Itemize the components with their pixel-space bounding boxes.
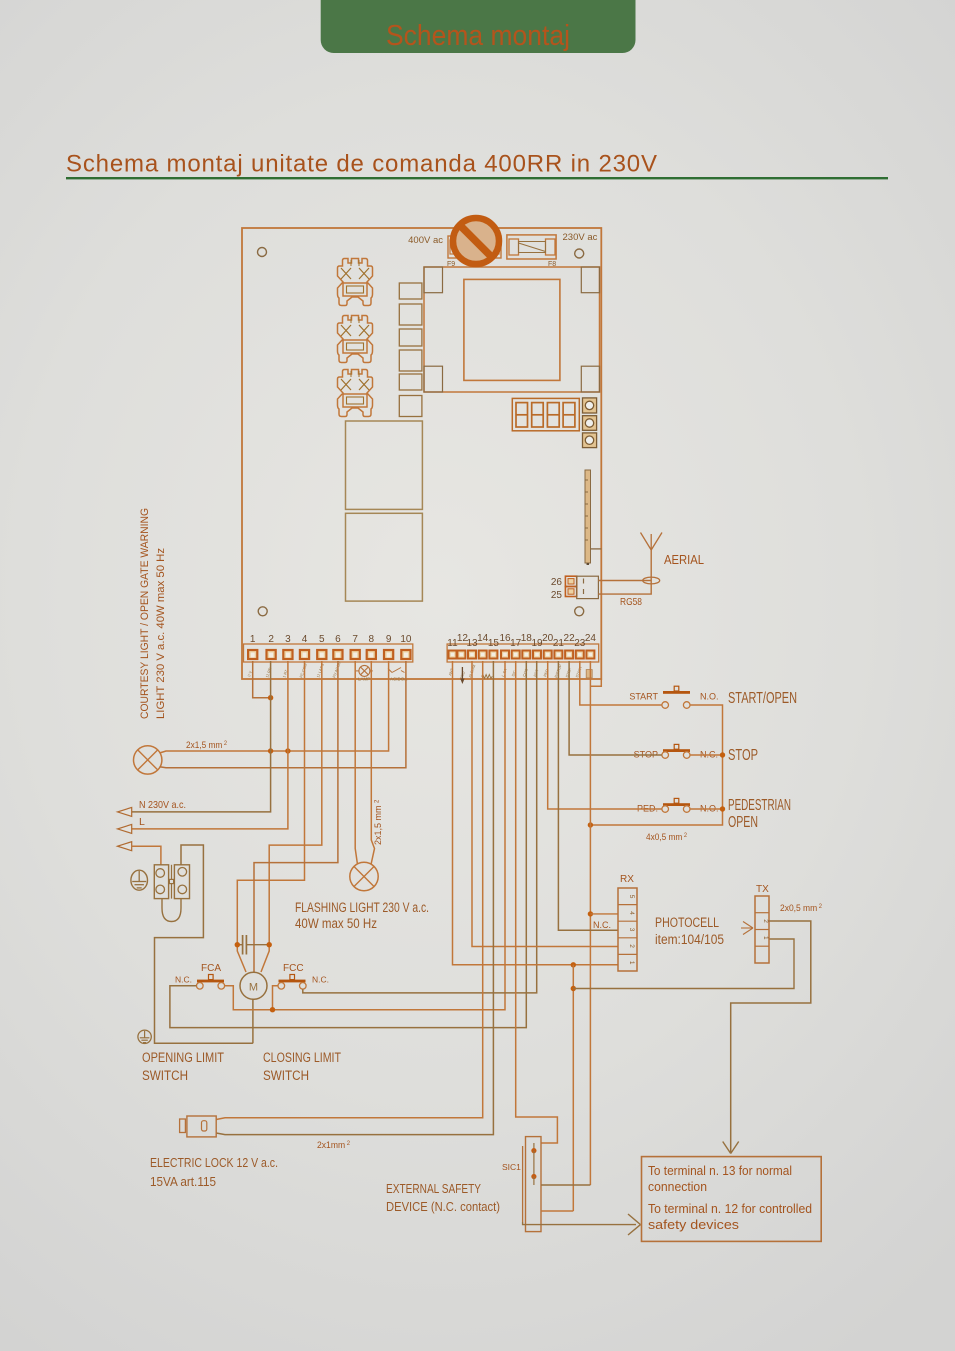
terminal strip X1 terminals 1-10 — [248, 650, 410, 659]
arrow L — [118, 824, 132, 833]
label N.C. FCC — [312, 975, 329, 985]
wire terminal 26 to coax — [598, 580, 651, 582]
svg-text:START: START — [629, 692, 658, 702]
junction dot lamp-N — [268, 748, 273, 753]
svg-text:F9: F9 — [447, 261, 455, 268]
label N.O. START — [700, 692, 719, 702]
svg-text:SIC1: SIC1 — [502, 1162, 521, 1172]
svg-text:25: 25 — [551, 590, 563, 601]
label N.C. RX — [593, 920, 611, 930]
heatsink HS1 — [338, 259, 373, 306]
safety switch SIC1 — [523, 1137, 541, 1232]
svg-text:RX: RX — [620, 874, 634, 885]
arrow into note box left — [628, 1214, 641, 1235]
button SW1 — [583, 398, 597, 413]
page heading — [66, 151, 657, 178]
svg-text:DEVICE (N.C. contact): DEVICE (N.C. contact) — [386, 1199, 500, 1214]
display DS1 — [512, 398, 579, 430]
svg-text:PED: PED — [543, 668, 550, 677]
label START/OPEN — [728, 690, 797, 707]
wire terminal 14 to electric lock — [216, 661, 483, 1120]
heading underline — [66, 177, 888, 179]
junction dot C1 left — [235, 942, 240, 947]
U loop under mains block — [162, 899, 181, 922]
svg-text:4: 4 — [628, 911, 635, 915]
wire STOP left to terminal 22 — [569, 661, 662, 755]
svg-text:LIGHT 230 V a.c. 40W max 50 H: LIGHT 230 V a.c. 40W max 50 Hz — [155, 548, 167, 719]
svg-text:400V ac: 400V ac — [408, 235, 443, 246]
junction dot chain PED — [720, 806, 725, 811]
svg-text:item:104/105: item:104/105 — [655, 932, 724, 947]
svg-text:CLOSING LIMIT: CLOSING LIMIT — [263, 1050, 341, 1065]
wire terminal 13 to RX cell 2 — [472, 661, 618, 947]
svg-text:10: 10 — [400, 634, 412, 645]
heatsink HS2 — [338, 316, 373, 363]
push button PED — [662, 798, 690, 812]
terminal strip X2 terminals 11-24 — [449, 651, 595, 659]
junction dot TX1 tap — [571, 986, 576, 991]
X1 label strip small markings — [247, 661, 342, 679]
coax connector symbol — [643, 577, 660, 584]
safety chain vertical — [572, 965, 574, 1211]
wire courtesy lamp bottom to terminal 10 — [160, 661, 406, 768]
limit switch FCA — [197, 975, 225, 990]
label 230V ac — [563, 232, 598, 243]
label N.O. PED — [700, 804, 719, 814]
svg-text:2x1mm 2: 2x1mm 2 — [317, 1140, 350, 1151]
label SIC1 — [502, 1162, 521, 1172]
junction dot chain t24 column — [588, 822, 593, 827]
svg-text:L: L — [139, 816, 145, 828]
svg-text:N 230V a.c.: N 230V a.c. — [139, 799, 186, 811]
arrow into note box top — [723, 1142, 739, 1154]
label STOP big — [728, 747, 758, 764]
svg-text:PHOTOCELL: PHOTOCELL — [655, 915, 719, 930]
wire FCC right to terminal 19 — [303, 661, 537, 993]
electric lock — [180, 1116, 217, 1137]
svg-text:FCA: FCA — [201, 963, 221, 974]
wire to RX cell 4 — [590, 913, 618, 915]
svg-text:2x1,5 mm 2: 2x1,5 mm 2 — [186, 740, 227, 751]
svg-text:FCC: FCC — [283, 963, 304, 974]
svg-text:SWITCH: SWITCH — [142, 1068, 188, 1083]
wire SIC1 to safety chain — [541, 1210, 573, 1212]
svg-text:26: 26 — [551, 577, 563, 588]
wire connector to board edge — [591, 548, 602, 550]
junction dot FCC chain — [270, 1007, 275, 1012]
wire N column terminal 2 — [132, 661, 271, 812]
label OPENING LIMIT SWITCH — [142, 1050, 224, 1083]
label 2x0,5 mm2 — [780, 903, 822, 914]
wire SIC1 to note box — [523, 1222, 636, 1225]
mounting hole bottom-left — [258, 607, 267, 616]
junction dot RX4 — [588, 911, 593, 916]
push button STOP — [662, 744, 690, 758]
label AERIAL — [664, 553, 704, 567]
wire terminal 1 jog — [253, 661, 271, 698]
label N 230V a.c. — [139, 799, 186, 811]
svg-text:ANT: ANT — [448, 667, 455, 676]
fuse F8 — [507, 235, 556, 268]
relay K2 — [346, 513, 423, 601]
arrow N — [118, 807, 132, 816]
limit switch FCC — [278, 975, 306, 990]
wire L column terminal 3 — [132, 661, 288, 829]
svg-text:4x0,5 mm 2: 4x0,5 mm 2 — [646, 832, 687, 843]
svg-text:ELECTRIC LOCK 12 V a.c.: ELECTRIC LOCK 12 V a.c. — [150, 1155, 278, 1170]
svg-text:5: 5 — [628, 895, 635, 899]
wire FCA right chain to terminal 16 — [225, 661, 505, 1010]
terminal strip X2 box — [447, 644, 599, 662]
wire terminal 4 to motor left — [237, 661, 304, 972]
X2 terminal 12 arrow — [460, 667, 464, 684]
svg-text:PEDESTRIAN: PEDESTRIAN — [728, 797, 791, 814]
svg-text:11 LAPS: 11 LAPS — [316, 663, 325, 679]
prohibition sign — [453, 218, 499, 264]
relay K1 — [346, 421, 423, 509]
wire courtesy lamp top to terminal 9 — [160, 661, 389, 753]
wire terminal 8 to flashing light — [371, 661, 375, 865]
terminal strip X1 box — [244, 644, 413, 662]
X1 switch pictogram — [388, 668, 407, 682]
junction dot safety chain top — [571, 962, 576, 967]
mains terminal block — [154, 865, 189, 899]
label FLASHING LIGHT — [295, 900, 429, 931]
svg-text:15VA art.115: 15VA art.115 — [150, 1174, 216, 1189]
mounting hole bottom-right — [575, 607, 584, 616]
wire SIC1 to aerial column — [541, 1184, 590, 1186]
capacitor C1 — [237, 935, 269, 955]
photocell TX block — [755, 896, 769, 963]
label PEDESTRIAN OPEN — [728, 797, 791, 831]
svg-text:11 RR: 11 RR — [265, 667, 272, 678]
svg-text:230V ac: 230V ac — [563, 232, 598, 243]
wire FCC left to chain — [273, 986, 278, 1010]
svg-text:COS: COS — [522, 668, 529, 678]
label 2x1,5 mm2 courtesy — [186, 740, 227, 751]
svg-text:STOP: STOP — [728, 747, 758, 764]
svg-text:FU ACOM: FU ACOM — [332, 661, 342, 679]
svg-text:2: 2 — [762, 919, 769, 923]
vertical label courtesy light line2 — [155, 548, 167, 719]
svg-text:F8: F8 — [548, 261, 556, 268]
svg-text:24: 24 — [585, 633, 597, 644]
svg-text:START/OPEN: START/OPEN — [728, 690, 797, 707]
arrow PE — [118, 842, 132, 851]
wire terminal 25 to aerial — [598, 550, 651, 594]
ground symbol bottom-left — [138, 1030, 151, 1043]
svg-text:9: 9 — [386, 634, 392, 645]
label STOP small — [634, 750, 658, 760]
board right edge extension wire — [590, 679, 601, 686]
label FCC — [283, 963, 304, 974]
earth symbol at mains block — [131, 870, 148, 890]
svg-text:N.C.: N.C. — [175, 975, 192, 985]
X2 tab under 24 — [586, 670, 592, 678]
svg-text:RG58: RG58 — [620, 596, 642, 608]
svg-text:7: 7 — [352, 634, 358, 645]
wire button chain right side — [590, 705, 722, 825]
svg-text:COURTESY LIGHT / OPEN GATE WAR: COURTESY LIGHT / OPEN GATE WARNING — [139, 508, 151, 719]
svg-text:Schema montaj unitate de coman: Schema montaj unitate de comanda 400RR i… — [66, 151, 657, 178]
label PHOTOCELL item — [655, 915, 724, 947]
control board outline — [242, 228, 601, 679]
mounting hole top-left — [258, 248, 267, 257]
svg-text:40W max 50 Hz: 40W max 50 Hz — [295, 916, 377, 931]
svg-text:FC.COM: FC.COM — [299, 663, 308, 678]
svg-text:AERIAL: AERIAL — [664, 553, 704, 567]
svg-text:15: 15 — [488, 638, 500, 649]
photocell RX block — [618, 888, 637, 971]
svg-text:4: 4 — [302, 634, 308, 645]
junction dot terminal1-2 — [268, 695, 273, 700]
wire terminal 15 to electric lock — [216, 661, 493, 1135]
mounting hole top-right — [575, 249, 584, 258]
beam arrows TX — [741, 922, 753, 935]
wire STOP right to chain — [690, 754, 723, 756]
motor M — [240, 972, 267, 999]
svg-text:N.C.: N.C. — [312, 975, 329, 985]
component squares column — [399, 283, 422, 417]
label TX — [756, 884, 769, 895]
svg-text:To terminal n. 12 for control: To terminal n. 12 for controlled — [648, 1202, 812, 1216]
label RX — [620, 874, 634, 885]
wire PED left to terminal 20 — [548, 661, 662, 809]
earth wire to motor — [155, 845, 253, 1043]
wire TX cell 2 to note box — [731, 921, 811, 1152]
svg-text:connection: connection — [648, 1180, 707, 1194]
label 400V ac — [408, 235, 443, 246]
label RG58 — [620, 596, 642, 608]
fuse F9 — [447, 236, 501, 268]
svg-text:2x1,5 mm 2: 2x1,5 mm 2 — [373, 799, 383, 845]
wire aerial column terminal 24 — [589, 661, 591, 1185]
label N.C. STOP — [700, 750, 718, 760]
button SW3 — [583, 433, 597, 448]
note box — [642, 1157, 822, 1242]
svg-text:6: 6 — [335, 634, 341, 645]
wire PED right to chain — [690, 808, 723, 810]
svg-text:N.O.: N.O. — [700, 692, 719, 702]
svg-text:N.C.: N.C. — [593, 920, 611, 930]
wire PE arrow to mains block — [132, 846, 161, 865]
junction dot chain STOP — [720, 752, 725, 757]
aerial symbol — [641, 533, 663, 551]
wire terminal 7 to flashing light — [355, 661, 357, 865]
svg-text:1: 1 — [762, 936, 769, 940]
svg-text:OPENING LIMIT: OPENING LIMIT — [142, 1050, 224, 1065]
wire START left to terminal 23 — [580, 661, 662, 705]
svg-text:safety devices: safety devices — [648, 1218, 739, 1232]
label CLOSING LIMIT SWITCH — [263, 1050, 341, 1083]
X2 resistor pictogram — [482, 675, 493, 679]
courtesy lamp — [134, 746, 162, 774]
terminal numbers 1-10 — [250, 634, 412, 645]
wire motor bottom to earth — [252, 999, 254, 1043]
label PED — [637, 804, 658, 814]
transformer T1 core — [464, 279, 560, 380]
wire terminal 6 to motor common — [254, 661, 338, 973]
svg-text:ACIDOA: ACIDOA — [390, 677, 407, 682]
X2 label strip small markings — [448, 664, 583, 681]
button SW2 — [583, 416, 597, 431]
wire FCA left chain to terminal 18 — [170, 661, 526, 1028]
svg-text:M: M — [249, 982, 258, 994]
junction dot lamp-L — [285, 748, 290, 753]
svg-text:LAMP: LAMP — [358, 677, 370, 682]
transformer T1 frame — [424, 267, 600, 392]
terminal block 26/25 — [551, 576, 599, 601]
wire to TX cell 1 — [573, 939, 794, 989]
svg-text:2: 2 — [268, 634, 274, 645]
label 4x0,5 mm2 — [646, 832, 687, 843]
svg-text:EXTERNAL SAFETY: EXTERNAL SAFETY — [386, 1181, 481, 1196]
label L — [139, 816, 145, 828]
label EXTERNAL SAFETY DEVICE — [386, 1181, 500, 1214]
label N.C. FCA — [175, 975, 192, 985]
svg-text:1: 1 — [250, 634, 256, 645]
junction dot C1 right — [267, 942, 272, 947]
antenna connector strip — [585, 470, 591, 565]
svg-text:To terminal n. 13 for normal: To terminal n. 13 for normal — [648, 1164, 792, 1178]
label FCA — [201, 963, 221, 974]
svg-text:8: 8 — [369, 634, 375, 645]
push button START — [662, 686, 690, 708]
svg-text:3: 3 — [285, 634, 291, 645]
svg-text:TX: TX — [756, 884, 769, 895]
wire terminal 21 to RX cell 3 — [558, 661, 618, 930]
heatsink HS3 — [338, 370, 373, 417]
svg-text:2: 2 — [628, 944, 635, 948]
title banner — [321, 0, 636, 53]
vertical label courtesy light line1 — [139, 508, 151, 719]
svg-text:FLASHING LIGHT 230 V a.c.: FLASHING LIGHT 230 V a.c. — [295, 900, 429, 915]
label 2x1mm2 — [317, 1140, 350, 1151]
wire terminal 5 to motor right — [261, 661, 322, 972]
label ELECTRIC LOCK — [150, 1155, 278, 1189]
terminal numbers 11-24 — [447, 633, 596, 649]
svg-text:3: 3 — [628, 928, 635, 932]
label START — [629, 692, 658, 702]
svg-text:SWITCH: SWITCH — [263, 1068, 309, 1083]
svg-text:1: 1 — [628, 961, 635, 965]
wire terminal 11 to RX cell 1 — [453, 661, 619, 965]
vertical label 2x1,5 mm2 flashing — [373, 799, 383, 845]
flashing light — [350, 862, 378, 890]
svg-text:OPEN: OPEN — [728, 814, 758, 831]
wire terminal 17 to SIC1 — [516, 661, 558, 1143]
svg-text:5: 5 — [319, 634, 325, 645]
svg-text:Schema montaj: Schema montaj — [386, 20, 570, 52]
svg-text:2x0,5 mm 2: 2x0,5 mm 2 — [780, 903, 822, 914]
X1 lamp pictogram — [356, 665, 373, 681]
